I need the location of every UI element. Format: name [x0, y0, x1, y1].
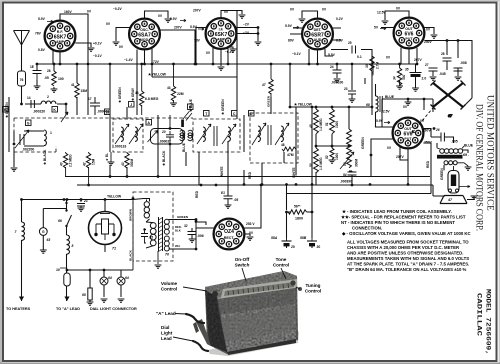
wire tube5 cathode drops — [401, 48, 417, 64]
svg-text:10: 10 — [56, 268, 60, 272]
svg-text:PUT: PUT — [404, 137, 412, 141]
ground tube2 left — [113, 42, 120, 45]
ground lamp path a — [87, 302, 94, 305]
svg-text:24: 24 — [330, 65, 334, 69]
resistor R42 15M — [83, 152, 96, 185]
box terminal B — [188, 104, 194, 110]
arrow to heaters — [19, 297, 24, 302]
svg-text:5.9V: 5.9V — [170, 17, 178, 21]
wire tube3 plate riser — [236, 11, 238, 120]
capacitor C54 .000390 — [340, 171, 357, 184]
ground tube5 grid loop — [382, 21, 389, 24]
svg-text:250V: 250V — [422, 129, 431, 133]
resistor R45 27M — [365, 56, 380, 71]
wire res46 gnd drop — [399, 64, 401, 84]
tube V3 6SK7 IF amp — [206, 18, 237, 49]
svg-text:Tuning: Tuning — [306, 283, 321, 288]
wire tube1 cathode drops — [53, 50, 60, 64]
choke L68 — [366, 96, 382, 112]
wire res45 drop — [364, 64, 366, 84]
svg-text:BROWN: BROWN — [129, 208, 133, 221]
resistor R50 1.5MEG — [309, 148, 323, 173]
svg-text:1000: 1000 — [335, 121, 339, 128]
wire tuner risers — [110, 64, 352, 200]
labels RED-BLK WH — [175, 225, 182, 248]
resistor R49 1.0MEG — [309, 109, 323, 134]
svg-text:J: J — [130, 103, 132, 107]
svg-text:Dial: Dial — [161, 325, 169, 330]
IF transformer T3 dashed box — [113, 119, 143, 152]
svg-text:DIV. OF GENERAL MOTORS CORP.: DIV. OF GENERAL MOTORS CORP. — [474, 104, 485, 231]
wire tube2 left pin — [116, 28, 130, 42]
svg-text:D: D — [250, 112, 253, 116]
svg-text:50: 50 — [309, 163, 313, 167]
svg-text:RECT.: RECT. — [224, 236, 235, 240]
wire choke68 riser — [376, 84, 393, 127]
svg-text:55B: 55B — [300, 236, 307, 240]
ground oz4 right — [247, 237, 254, 240]
svg-text:49: 49 — [309, 124, 313, 129]
wire heater riser — [21, 200, 23, 302]
IF transformer T5 dashed box — [193, 119, 240, 152]
tube V5 6V6 output — [394, 18, 425, 49]
wire tube2 cathode drops — [137, 48, 152, 115]
svg-text:35: 35 — [405, 68, 409, 72]
resistor R44 6.8MEG — [135, 64, 159, 115]
svg-text:TO HEATERS: TO HEATERS — [6, 307, 31, 311]
ground tube3 cathode — [218, 67, 225, 70]
wire tube3 left pin — [196, 28, 206, 65]
svg-text:71: 71 — [112, 247, 116, 251]
ground tuner black — [105, 152, 114, 165]
svg-text:2: 2 — [47, 95, 49, 99]
svg-text:.002200: .002200 — [22, 148, 34, 152]
svg-text:27: 27 — [425, 63, 429, 67]
ground lamp path c — [118, 299, 125, 302]
svg-text:1.0 MEG: 1.0 MEG — [319, 118, 323, 131]
wire tube4 out coupling y49.5 — [331, 50, 372, 116]
ground tube4 grid loop — [299, 19, 306, 22]
svg-text:BLUE: BLUE — [385, 95, 395, 99]
svg-text:41: 41 — [71, 83, 75, 87]
svg-text:51: 51 — [325, 122, 329, 126]
photo pointer lines — [173, 268, 300, 341]
box terminal B left — [3, 97, 10, 112]
T70 lead wires — [121, 199, 158, 271]
box terminal K — [52, 107, 58, 113]
voltage labels tube V4 — [285, 8, 344, 58]
IF2 primary coil — [197, 124, 211, 144]
ground speaker — [467, 196, 477, 200]
ground tube3 screen — [255, 42, 262, 45]
capacitor C26 .005 — [435, 128, 458, 144]
fuse 10 — [56, 268, 70, 286]
wire cap26 link — [437, 137, 454, 147]
wire bus mid y176 — [65, 176, 430, 178]
capacitor C17 .000068 — [88, 97, 109, 115]
wire tube5 left pin — [381, 27, 394, 29]
svg-text:RED: RED — [426, 160, 430, 168]
svg-text:BLUE: BLUE — [464, 144, 474, 148]
wire tube3 grid loop — [221, 11, 242, 19]
resistor R41 15M — [71, 83, 87, 98]
svg-text:53: 53 — [343, 162, 347, 166]
IF1 primary coil — [115, 124, 129, 144]
T70 cap .05 — [141, 230, 153, 241]
svg-text:UNITED MOTORS SERVICE: UNITED MOTORS SERVICE — [485, 95, 496, 211]
svg-text:−1.4V: −1.4V — [124, 58, 134, 62]
svg-text:.000220: .000220 — [33, 110, 45, 114]
svg-text:63: 63 — [47, 238, 51, 242]
svg-text:◆ - OSCILLATOR VOLTAGE VARIE: ◆ - OSCILLATOR VOLTAGE VARIES, GIVEN VAL… — [341, 231, 471, 236]
svg-text:.000100: .000100 — [331, 81, 343, 85]
ground T70 centertap — [155, 265, 162, 268]
capacitor C14 .000220 — [27, 96, 45, 114]
resistor R28 100 — [47, 69, 64, 92]
wire tube2 plate — [160, 30, 196, 64]
svg-text:★ GREEN: ★ GREEN — [221, 99, 225, 116]
svg-text:★ BL: ★ BL — [105, 153, 109, 162]
resistor R51 1000 — [325, 109, 339, 134]
IF3 core — [268, 125, 271, 145]
svg-text:207V: 207V — [414, 58, 423, 62]
wire power section laterals — [43, 200, 105, 302]
svg-text:207V: 207V — [193, 9, 202, 13]
svg-text:2.0: 2.0 — [422, 77, 427, 81]
IF3 secondary coil — [275, 123, 289, 145]
svg-text:33: 33 — [365, 64, 369, 68]
svg-text:0.2V: 0.2V — [336, 17, 344, 21]
capacitor C20b 2.0 — [405, 64, 426, 91]
wire lamp feeds — [67, 270, 121, 302]
svg-text:.000133: .000133 — [114, 145, 126, 149]
svg-text:PUT: PUT — [405, 37, 413, 41]
capacitor C25 0.1 — [348, 41, 362, 59]
svg-text:RED: RED — [195, 190, 199, 198]
wire voicecoil leads — [443, 165, 445, 170]
svg-text:17: 17 — [88, 97, 92, 101]
capacitor C32 .006 — [184, 224, 204, 242]
wire left green riser — [9, 97, 14, 167]
wire tube5 plate line — [424, 41, 472, 85]
svg-text:E1: E1 — [221, 191, 225, 195]
box terminal T — [204, 111, 210, 117]
voltage labels tube V5 — [374, 7, 433, 63]
svg-text:.006: .006 — [197, 234, 204, 238]
extra junction dots — [13, 143, 160, 201]
svg-text:16: 16 — [105, 110, 109, 114]
svg-text:DIAL LIGHT CONNECTOR: DIAL LIGHT CONNECTOR — [90, 307, 137, 311]
svg-text:AT THE SPARK PLATE. TOTAL: AT THE SPARK PLATE. TOTAL "A" DRAIN 7 - … — [347, 262, 469, 267]
resistor R47 green — [261, 64, 273, 114]
resistor R40 2.2MEG — [60, 152, 73, 177]
svg-text:Light: Light — [161, 331, 173, 336]
T70 buffer coil — [144, 199, 150, 223]
T70 dots — [132, 197, 198, 250]
box terminal A — [146, 120, 152, 126]
svg-text:.045: .045 — [439, 72, 446, 76]
T70 secondary windings — [164, 219, 196, 251]
svg-text:207V: 207V — [174, 26, 183, 30]
svg-text:"A" Lead: "A" Lead — [156, 311, 176, 316]
wire coil2 link — [25, 104, 66, 115]
svg-text:AMP: AMP — [217, 38, 226, 42]
wire color labels horizontal — [107, 95, 474, 199]
svg-text:8: 8 — [72, 244, 74, 248]
resistor R43 330M — [121, 153, 134, 168]
ground left tuner — [11, 168, 18, 171]
IF2 core — [214, 126, 217, 146]
svg-text:0.8V: 0.8V — [38, 48, 46, 52]
capacitor C29 .008 — [454, 61, 467, 80]
ground tube6 top line — [405, 102, 412, 105]
svg-text:★ YELLOW: ★ YELLOW — [147, 73, 167, 77]
dial lamp 64a — [100, 276, 112, 285]
tube V6 6V6 output — [393, 118, 424, 149]
svg-text:.008: .008 — [460, 61, 467, 65]
svg-text:2.2 MEG: 2.2 MEG — [69, 154, 73, 167]
wire tube4 grid loop — [302, 11, 318, 19]
svg-text:15M: 15M — [81, 89, 88, 93]
svg-text:.05: .05 — [149, 236, 154, 240]
svg-text:64: 64 — [125, 276, 129, 280]
potentiometer R53 300M — [340, 129, 359, 169]
box terminal G — [26, 120, 32, 126]
svg-text:MEASUREMENTS TAKEN WITH NO: MEASUREMENTS TAKEN WITH NO SIGNAL AND 6.… — [347, 256, 469, 261]
svg-text:BLACK: BLACK — [129, 249, 133, 261]
wire filter caps leads — [287, 244, 313, 248]
svg-text:1E: 1E — [30, 65, 34, 69]
svg-text:GREEN: GREEN — [361, 137, 365, 149]
svg-text:160V: 160V — [64, 10, 73, 14]
capacitor C28 .045 — [441, 52, 452, 66]
svg-text:1800: 1800 — [295, 217, 303, 221]
svg-text:28: 28 — [441, 52, 445, 56]
wire cap1E drop — [36, 64, 38, 86]
ground tube3 grid loop — [239, 15, 246, 18]
svg-text:207V: 207V — [396, 155, 405, 159]
svg-text:G: G — [42, 230, 45, 234]
svg-text:65: 65 — [82, 293, 86, 297]
arrow to A lead — [64, 297, 69, 302]
wire tube5 screen stub — [424, 28, 434, 35]
svg-text:Control: Control — [273, 263, 289, 268]
svg-text:21: 21 — [83, 199, 88, 203]
wire output transformer gnd lead — [462, 150, 468, 153]
svg-text:5.9V: 5.9V — [285, 24, 293, 28]
capacitor E1 .05 — [221, 191, 238, 208]
svg-text:34: 34 — [393, 76, 397, 80]
svg-text:−0.2V: −0.2V — [113, 7, 123, 11]
svg-text:OZ4: OZ4 — [224, 229, 234, 235]
osc switch bar — [181, 111, 192, 127]
wire res41 drop — [76, 64, 78, 115]
wire tube4 cathode drops — [309, 49, 333, 64]
svg-text:CHASSIS WITH A 20,000 OHMS: CHASSIS WITH A 20,000 OHMS PER VOLT D.C.… — [347, 245, 460, 250]
svg-text:CONNECTION.: CONNECTION. — [352, 226, 382, 231]
svg-text:52: 52 — [325, 155, 329, 159]
svg-text:★ BLACK: ★ BLACK — [43, 149, 47, 166]
wire speaker field riser — [463, 84, 472, 107]
svg-text:43: 43 — [167, 86, 171, 90]
tube V7 OZ4 rectifier — [214, 219, 245, 250]
svg-text:★ BLUE: ★ BLUE — [189, 98, 193, 113]
svg-text:14: 14 — [27, 96, 31, 100]
T70 primary winding — [146, 222, 156, 248]
wire transformer leads — [146, 200, 148, 202]
wire tube1 grid loop — [60, 14, 88, 115]
svg-text:.000390: .000390 — [340, 180, 352, 184]
wire tube3 screen stub — [236, 28, 258, 42]
wire tube3 cathode drops — [213, 47, 228, 66]
speaker voice coil unit — [440, 166, 470, 204]
wire tube6 cathode — [400, 147, 408, 185]
tube V4 6SR7 det-aud — [302, 19, 333, 50]
box terminal 16 — [105, 109, 111, 115]
svg-text:A: A — [147, 121, 150, 125]
svg-text:12.5V: 12.5V — [381, 110, 390, 114]
svg-text:"B" DRAIN 64 MA. TOLERANC: "B" DRAIN 64 MA. TOLERANCE ON ALL VOLTAG… — [347, 267, 467, 272]
svg-text:CADILLAC: CADILLAC — [476, 293, 483, 336]
svg-text:YELLOW: YELLOW — [371, 61, 375, 76]
ground output transformer secondary — [457, 163, 471, 170]
wire tube1 screen stub — [75, 43, 91, 47]
tuner arrow K — [61, 112, 68, 122]
svg-text:250V: 250V — [424, 40, 433, 44]
svg-text:WH: WH — [175, 244, 180, 248]
svg-text:6.8 MEG: 6.8 MEG — [145, 97, 159, 101]
svg-text:28: 28 — [47, 69, 51, 73]
svg-text:25: 25 — [348, 41, 352, 45]
output transformer T69 — [437, 143, 464, 165]
svg-text:C: C — [233, 112, 236, 116]
dial lamp 64b — [117, 276, 129, 285]
svg-text:K: K — [53, 108, 56, 112]
svg-text:.05: .05 — [234, 198, 239, 202]
svg-text:OUT: OUT — [405, 27, 413, 31]
svg-text:OUT: OUT — [404, 127, 412, 131]
svg-text:100: 100 — [58, 77, 64, 81]
svg-text:GREEN: GREEN — [440, 168, 444, 180]
wire B-plus branch — [287, 143, 432, 238]
capacitor C1E .05 + ground — [30, 65, 49, 89]
svg-text:.005: .005 — [451, 140, 458, 144]
svg-text:0.1: 0.1 — [357, 55, 362, 59]
svg-text:WHITE: WHITE — [292, 167, 296, 178]
svg-text:66: 66 — [58, 219, 62, 223]
svg-text:★ - INDICATES LEAD FROM TUN: ★ - INDICATES LEAD FROM TUNER COIL ASSEM… — [341, 209, 452, 214]
ammeter 63 — [39, 228, 50, 254]
svg-text:69 .: 69 . — [463, 153, 469, 157]
svg-text:56**: 56** — [294, 205, 301, 209]
IF transformer T6 dashed box — [250, 113, 298, 163]
svg-text:Lead: Lead — [161, 336, 172, 341]
svg-text:1000: 1000 — [335, 153, 339, 160]
wire tube4 left pin — [290, 28, 302, 34]
svg-text:−0.1V: −0.1V — [292, 52, 302, 56]
svg-text:−6.4V: −6.4V — [225, 50, 235, 54]
svg-text:2.7M: 2.7M — [376, 62, 380, 69]
osc loop dots — [169, 127, 172, 145]
svg-text:MOD.: MOD. — [140, 38, 149, 42]
choke L8 — [67, 235, 74, 254]
wire tube5 grid loop — [385, 11, 409, 20]
voltage labels tube V6 — [376, 105, 431, 159]
wire res28 drop — [53, 64, 55, 89]
svg-text:BLUE: BLUE — [182, 142, 186, 152]
osc loop risers — [169, 115, 171, 177]
ground tube5 screen — [431, 35, 438, 38]
resistor R48 47M horizontal — [281, 143, 296, 157]
svg-text:64: 64 — [108, 276, 112, 280]
svg-text:72V: 72V — [153, 60, 160, 64]
osc coil windings — [180, 130, 193, 140]
voltage labels tube V2 — [106, 7, 183, 64]
svg-text:5.9V: 5.9V — [190, 25, 198, 29]
wire bus A-hot yellow y199.5 — [21, 199, 133, 201]
svg-text:15M: 15M — [92, 158, 96, 165]
svg-text:Control: Control — [161, 287, 177, 292]
svg-text:70: 70 — [165, 253, 169, 257]
svg-text:20: 20 — [291, 245, 295, 249]
svg-text:.05: .05 — [44, 76, 49, 80]
antenna — [14, 31, 30, 46]
tuner coil L1 — [24, 130, 52, 146]
svg-text:AMP: AMP — [56, 40, 65, 44]
tube V1 6SK7 RF amp — [45, 21, 76, 52]
box terminal C — [232, 111, 238, 117]
wire tube2 grid loop — [145, 11, 169, 19]
wire cap27-28 drops — [447, 41, 458, 73]
svg-text:−2V: −2V — [243, 23, 250, 27]
svg-text:1: 1 — [50, 131, 52, 135]
voltage labels tube V3 — [190, 9, 250, 56]
svg-text:1.5 MEG: 1.5 MEG — [319, 157, 323, 170]
IF3 primary coil — [252, 123, 266, 145]
svg-text:GREEN: GREEN — [267, 95, 271, 107]
svg-text:−0.1V: −0.1V — [93, 54, 103, 58]
svg-text:47: 47 — [261, 83, 266, 87]
svg-text:22M: 22M — [177, 92, 184, 96]
ground tube1 screen — [88, 48, 95, 51]
svg-text:−2V: −2V — [243, 31, 250, 35]
svg-text:47M: 47M — [287, 153, 294, 157]
tuner dashed box — [14, 118, 193, 152]
ground lamp path b — [101, 299, 108, 302]
svg-text:AUD: AUD — [314, 38, 322, 42]
svg-text:26: 26 — [435, 128, 440, 132]
resistor R52 1000 — [325, 148, 339, 163]
wire tube6 plate line — [423, 129, 438, 138]
svg-text:78V: 78V — [194, 39, 201, 43]
switch S8 on-off — [65, 202, 71, 227]
voltage labels OZ4 — [246, 222, 255, 235]
resistor R42 22M + ground — [167, 64, 184, 106]
speaker field X67 — [412, 81, 466, 134]
svg-text:20: 20 — [161, 130, 166, 134]
svg-text:DET.: DET. — [314, 28, 322, 32]
svg-text:★ GREEN: ★ GREEN — [118, 87, 122, 104]
suppressor 76 — [18, 71, 26, 86]
box terminal J — [129, 102, 135, 108]
svg-text:NT - INDICATES PIN TO WHICH: NT - INDICATES PIN TO WHICH THERE IS NO … — [341, 220, 455, 225]
svg-text:G: G — [27, 121, 30, 125]
wire tube6 grid left — [371, 139, 393, 177]
svg-text:+0.1V: +0.1V — [93, 42, 103, 46]
svg-text:76: 76 — [20, 78, 24, 82]
svg-text:ALL VOLTAGES MEASURED FROM: ALL VOLTAGES MEASURED FROM SOCKET TERMIN… — [347, 240, 469, 245]
wire color labels vertical — [5, 61, 444, 198]
